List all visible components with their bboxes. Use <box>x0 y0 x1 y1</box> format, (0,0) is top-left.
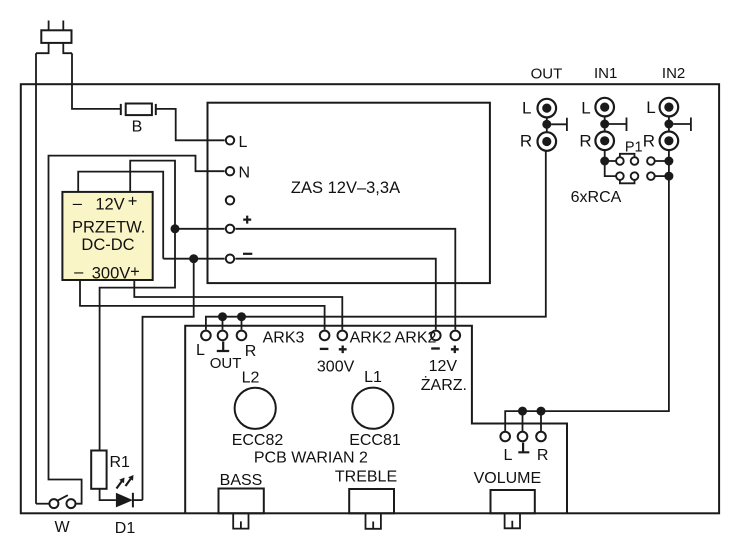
svg-text:R: R <box>520 132 532 151</box>
potentiometer TREBLE <box>349 489 394 529</box>
svg-text:ECC82: ECC82 <box>232 432 284 449</box>
power supply box ZAS <box>208 103 490 283</box>
connector ARK3 terminals <box>201 331 211 341</box>
wire IN1 R to P1 <box>605 150 617 176</box>
wire pin3 to IN2 <box>655 160 669 162</box>
connector ARK2 300V terminals <box>320 331 330 341</box>
label plus <box>339 346 347 354</box>
wire N terminal to switch <box>49 156 225 504</box>
node volume R <box>537 407 546 416</box>
node IN1 ground <box>600 120 609 129</box>
wire plug left prong down to switch <box>35 53 37 504</box>
label minus <box>431 347 440 349</box>
wire minus rail to ZAS minus <box>163 258 224 260</box>
wire IN1 node to pin1 <box>605 160 617 162</box>
rca jack OUT R <box>538 132 557 151</box>
svg-text:L: L <box>522 99 531 118</box>
svg-text:ARK3: ARK3 <box>263 330 305 347</box>
svg-text:–: – <box>73 195 83 213</box>
node IN2 bottom <box>664 172 673 181</box>
wire DC-DC 12V plus pin down <box>100 161 175 451</box>
terminal L <box>226 136 234 144</box>
fuse B <box>121 104 156 116</box>
svg-text:ŻARZ.: ŻARZ. <box>421 375 467 394</box>
svg-text:L: L <box>646 98 655 117</box>
wire DC-DC 300V minus pin to ARK2 300V minus <box>80 280 325 330</box>
svg-text:R: R <box>245 343 257 360</box>
tube L2 <box>235 388 276 429</box>
label minus <box>320 348 329 350</box>
DC-DC converter box <box>62 192 152 280</box>
wire plus rail to ZAS plus <box>175 228 225 230</box>
svg-text:300V: 300V <box>317 359 355 376</box>
node OUT ground <box>542 120 551 129</box>
svg-text:R1: R1 <box>110 454 131 471</box>
terminal plus <box>226 225 234 233</box>
svg-text:N: N <box>239 165 251 182</box>
node volume gnd <box>518 407 527 416</box>
rca jack IN1 L <box>595 98 614 117</box>
svg-text:–: – <box>74 263 84 281</box>
svg-text:ZAS 12V–3,3A: ZAS 12V–3,3A <box>291 179 400 197</box>
rca jack OUT L <box>538 99 557 118</box>
svg-text:L2: L2 <box>242 370 260 387</box>
svg-text:OUT: OUT <box>210 355 242 372</box>
LED D1 <box>116 475 143 507</box>
connector volume input terminals <box>500 432 510 442</box>
wire IN1 L to R <box>604 116 606 131</box>
wire fuse to L terminal <box>156 109 225 140</box>
node plus junction <box>171 224 180 233</box>
svg-text:TREBLE: TREBLE <box>335 469 397 486</box>
node ARK3 gnd <box>218 312 227 321</box>
node ARK3 R <box>237 312 246 321</box>
wire ZAS minus to ARK2 12V minus <box>235 259 435 330</box>
label plus <box>451 346 459 354</box>
wire left to switch <box>36 503 49 505</box>
wire IN2 L to R <box>668 116 670 131</box>
svg-text:IN1: IN1 <box>594 65 617 82</box>
svg-text:D1: D1 <box>115 520 136 537</box>
wire volume R stub <box>540 411 542 431</box>
potentiometer VOLUME pot <box>491 490 535 528</box>
svg-text:ARK2: ARK2 <box>350 330 392 347</box>
node IN1 pin1 feed <box>600 157 609 166</box>
wire minus junction down to LED cathode <box>143 259 194 500</box>
svg-text:300V: 300V <box>92 265 131 283</box>
rca jack IN2 R <box>660 132 679 151</box>
rca jack IN2 L <box>660 98 679 117</box>
mains plug <box>36 21 72 54</box>
svg-text:W: W <box>54 519 70 536</box>
terminal unused <box>226 196 234 204</box>
connector ARK2 12V terminals <box>431 331 441 341</box>
wire ARK3 out bus to OUT RCA R <box>206 151 546 330</box>
svg-text:+: + <box>128 193 138 211</box>
svg-text:OUT: OUT <box>531 66 563 83</box>
terminal minus <box>226 255 234 263</box>
svg-text:IN2: IN2 <box>662 65 685 82</box>
svg-text:VOLUME: VOLUME <box>474 470 542 487</box>
svg-text:R: R <box>537 447 549 464</box>
wire OUT L to R <box>546 117 548 132</box>
enclosure outer border <box>21 84 719 513</box>
node IN2 ground <box>664 120 673 129</box>
wire R1 to LED anode <box>100 489 116 500</box>
pcb board outline <box>185 326 567 514</box>
svg-text:L: L <box>196 342 205 359</box>
ground lug OUT <box>551 118 567 131</box>
wire plug right prong down to fuse <box>72 53 121 109</box>
wire DC-DC 300V plus pin to ARK2 300V plus <box>134 280 342 330</box>
wire pin3 bottom to IN2 <box>655 175 669 177</box>
rca jack IN1 R <box>595 132 614 151</box>
header P1 <box>616 157 655 180</box>
svg-text:ARK2: ARK2 <box>395 330 437 347</box>
switch W <box>49 495 75 508</box>
potentiometer BASS <box>219 489 264 529</box>
ground lug IN2 <box>673 118 691 132</box>
svg-text:12V: 12V <box>95 195 124 213</box>
resistor R1 <box>91 451 106 489</box>
svg-text:ECC81: ECC81 <box>349 432 401 449</box>
ground symbol <box>518 443 529 453</box>
svg-text:L: L <box>581 99 590 118</box>
svg-text:R: R <box>643 132 655 151</box>
jumper bridge bottom <box>620 180 635 184</box>
svg-text:R: R <box>579 132 591 151</box>
wire DC-DC 12V minus pin to minus rail <box>78 172 163 259</box>
svg-text:B: B <box>132 119 143 136</box>
svg-text:L: L <box>239 134 248 151</box>
wire ARK3 gnd stub <box>222 317 224 330</box>
tube L1 <box>352 388 393 429</box>
wire IN2 R down to volume connector <box>505 150 669 431</box>
svg-text:PCB WARIAN 2: PCB WARIAN 2 <box>254 450 368 467</box>
svg-text:BASS: BASS <box>220 472 263 489</box>
jumper bridge top <box>620 154 635 158</box>
svg-text:12V: 12V <box>429 358 458 375</box>
terminal N <box>226 167 234 175</box>
node IN2 top <box>664 157 673 166</box>
svg-text:L: L <box>504 447 513 464</box>
node minus junction <box>189 254 198 263</box>
svg-text:PRZETW.: PRZETW. <box>72 218 145 236</box>
svg-text:DC-DC: DC-DC <box>81 236 134 254</box>
wire ZAS plus to ARK2 12V plus <box>235 229 455 330</box>
wire volume gnd stub <box>522 411 524 431</box>
ground lug IN1 <box>609 118 627 132</box>
svg-text:+: + <box>130 263 140 281</box>
ground symbol <box>217 342 229 352</box>
svg-text:6xRCA: 6xRCA <box>571 189 622 206</box>
wire ARK3 R stub <box>241 317 243 330</box>
svg-text:L1: L1 <box>364 369 382 386</box>
